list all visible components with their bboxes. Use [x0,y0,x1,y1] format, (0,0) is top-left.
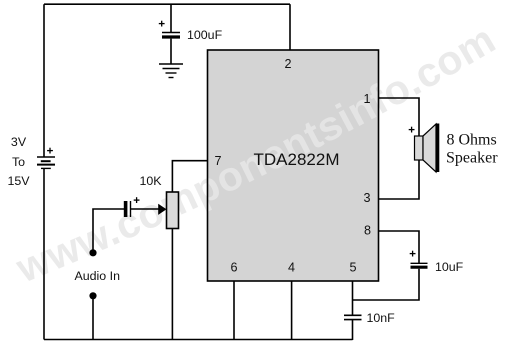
svg-text:2: 2 [285,57,292,71]
svg-text:Speaker: Speaker [446,150,498,167]
node B (audio in lower) [89,292,96,299]
wire left rail lower (battery -) [43,169,45,340]
speaker LS1 driver [415,136,424,160]
svg-text:10K: 10K [140,174,163,188]
watermark www.componentsinfo.com [24,49,496,283]
op-amp IC U1 TDA2822M border [208,50,379,281]
wire C1 to ground [170,39,172,64]
wire pin 5 down [352,281,354,315]
wire pin 8 to 10uF [379,231,420,263]
svg-text:TDA2822M: TDA2822M [254,150,340,169]
svg-text:100uF: 100uF [187,28,223,42]
svg-text:To: To [12,155,25,169]
speaker label 8 Ohms Speaker [446,132,498,167]
svg-text:Audio In: Audio In [75,269,121,283]
wire pot top to pin 7 [172,161,207,192]
wire top rail [44,3,290,5]
svg-text:15V: 15V [7,174,30,188]
capacitor C2 coupling (polarized) [126,201,131,217]
capacitor C1 100uF stem top [170,4,172,32]
speaker LS1 cone [423,124,436,172]
wire pin2 drop [289,4,291,50]
svg-text:10nF: 10nF [367,311,396,325]
ground [159,64,183,78]
battery value label 3V To 15V [7,135,30,188]
wire C3 to pin5 junction [353,269,420,300]
capacitor C1 100uF plates [162,33,180,38]
svg-text:10uF: 10uF [435,260,464,274]
capacitor C2 plus sign [134,197,140,203]
capacitor C3 plus sign [410,251,416,257]
svg-text:3V: 3V [11,135,27,149]
wire audio lower node to bottom rail [92,296,94,340]
wire audio node to coupling cap [93,209,124,253]
node A (audio in upper) [89,249,96,256]
svg-text:1: 1 [364,92,371,106]
wire pin 6 to bottom rail [233,281,235,340]
wire C4 to bottom rail [352,320,354,340]
battery plus sign [47,148,53,154]
wire bottom rail [44,339,353,341]
svg-text:5: 5 [350,261,357,275]
capacitor C3 10uF plates [411,263,428,267]
capacitor C1 plus sign [159,21,165,27]
svg-text:6: 6 [231,261,238,275]
wire pin 1 to speaker [379,98,420,136]
wire pin 3 to speaker [379,160,420,199]
potentiometer R1 10K body [167,192,179,229]
wire pin 4 to bottom rail [291,281,293,340]
capacitor C4 10nF plates [344,315,362,319]
arrowhead wiper [158,204,166,215]
svg-text:8: 8 [364,224,371,238]
op-amp IC U1 TDA2822M body fill [208,50,379,281]
svg-text:4: 4 [288,261,295,275]
svg-text:7: 7 [215,154,222,168]
speaker LS1 front bar [436,124,439,173]
battery B1 [37,157,55,168]
wire pot bottom to bottom rail [171,229,173,341]
wire C2 to potentiometer wiper with arrow [131,208,161,210]
speaker plus sign [409,127,415,133]
svg-text:3: 3 [364,191,371,205]
wire left rail upper (battery +) [43,4,45,157]
svg-text:8 Ohms: 8 Ohms [447,132,497,149]
